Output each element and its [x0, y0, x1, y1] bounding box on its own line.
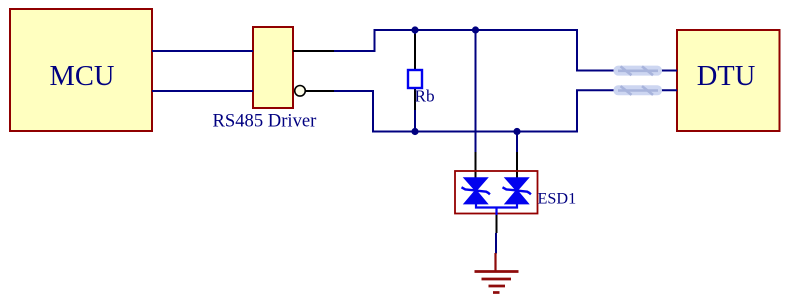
- resistor Rb: [408, 70, 422, 88]
- junction dot net B / ESD right: [513, 128, 520, 135]
- ferrite bead FB1 (upper): [614, 66, 663, 76]
- svg-text:Rb: Rb: [415, 87, 435, 106]
- svg-text:MCU: MCU: [50, 61, 115, 92]
- TVS diode D1 (left, bidirectional): [462, 178, 490, 204]
- ferrite bead FB2 (lower): [614, 85, 663, 95]
- wire ESD common drop (blue): [495, 208, 497, 216]
- wire ESD left branch (net A down): [475, 30, 477, 152]
- block U1 RS485 Driver: [253, 27, 293, 108]
- junction dot net A / ESD left: [472, 26, 479, 33]
- block MCU: [10, 9, 152, 131]
- TVS diode D2 (right, bidirectional): [503, 178, 531, 204]
- junction dot net B / Rb bottom: [411, 128, 418, 135]
- pin ESD left (black): [475, 152, 477, 178]
- ESD1 component box: [455, 171, 538, 214]
- inversion bubble: [295, 86, 306, 97]
- wire net A: driver to top rail to DTU: [334, 30, 677, 71]
- wire net B: driver to bottom rail to DTU: [334, 90, 677, 131]
- wire MCU to driver A: [152, 50, 253, 52]
- junction dot net A / Rb top: [411, 26, 418, 33]
- pin driver output A (black): [293, 50, 334, 52]
- pin ESD ground (black): [496, 215, 498, 233]
- block DTU: [677, 30, 780, 131]
- svg-text:RS485 Driver: RS485 Driver: [213, 111, 318, 132]
- wire ESD right branch (net B down): [516, 132, 518, 153]
- svg-text:ESD1: ESD1: [538, 190, 577, 208]
- pin Rb bottom (black): [414, 88, 416, 110]
- svg-text:DTU: DTU: [697, 61, 756, 92]
- wire to ground (navy): [495, 233, 497, 254]
- pin Rb top (black): [414, 34, 416, 70]
- wire MCU to driver B: [152, 90, 253, 92]
- wire ESD common (blue U): [476, 204, 517, 208]
- pin ESD right (black): [516, 152, 518, 178]
- wire Rb branch (navy): [414, 30, 416, 132]
- ground: [475, 253, 519, 293]
- pin driver output B (black): [306, 90, 334, 92]
